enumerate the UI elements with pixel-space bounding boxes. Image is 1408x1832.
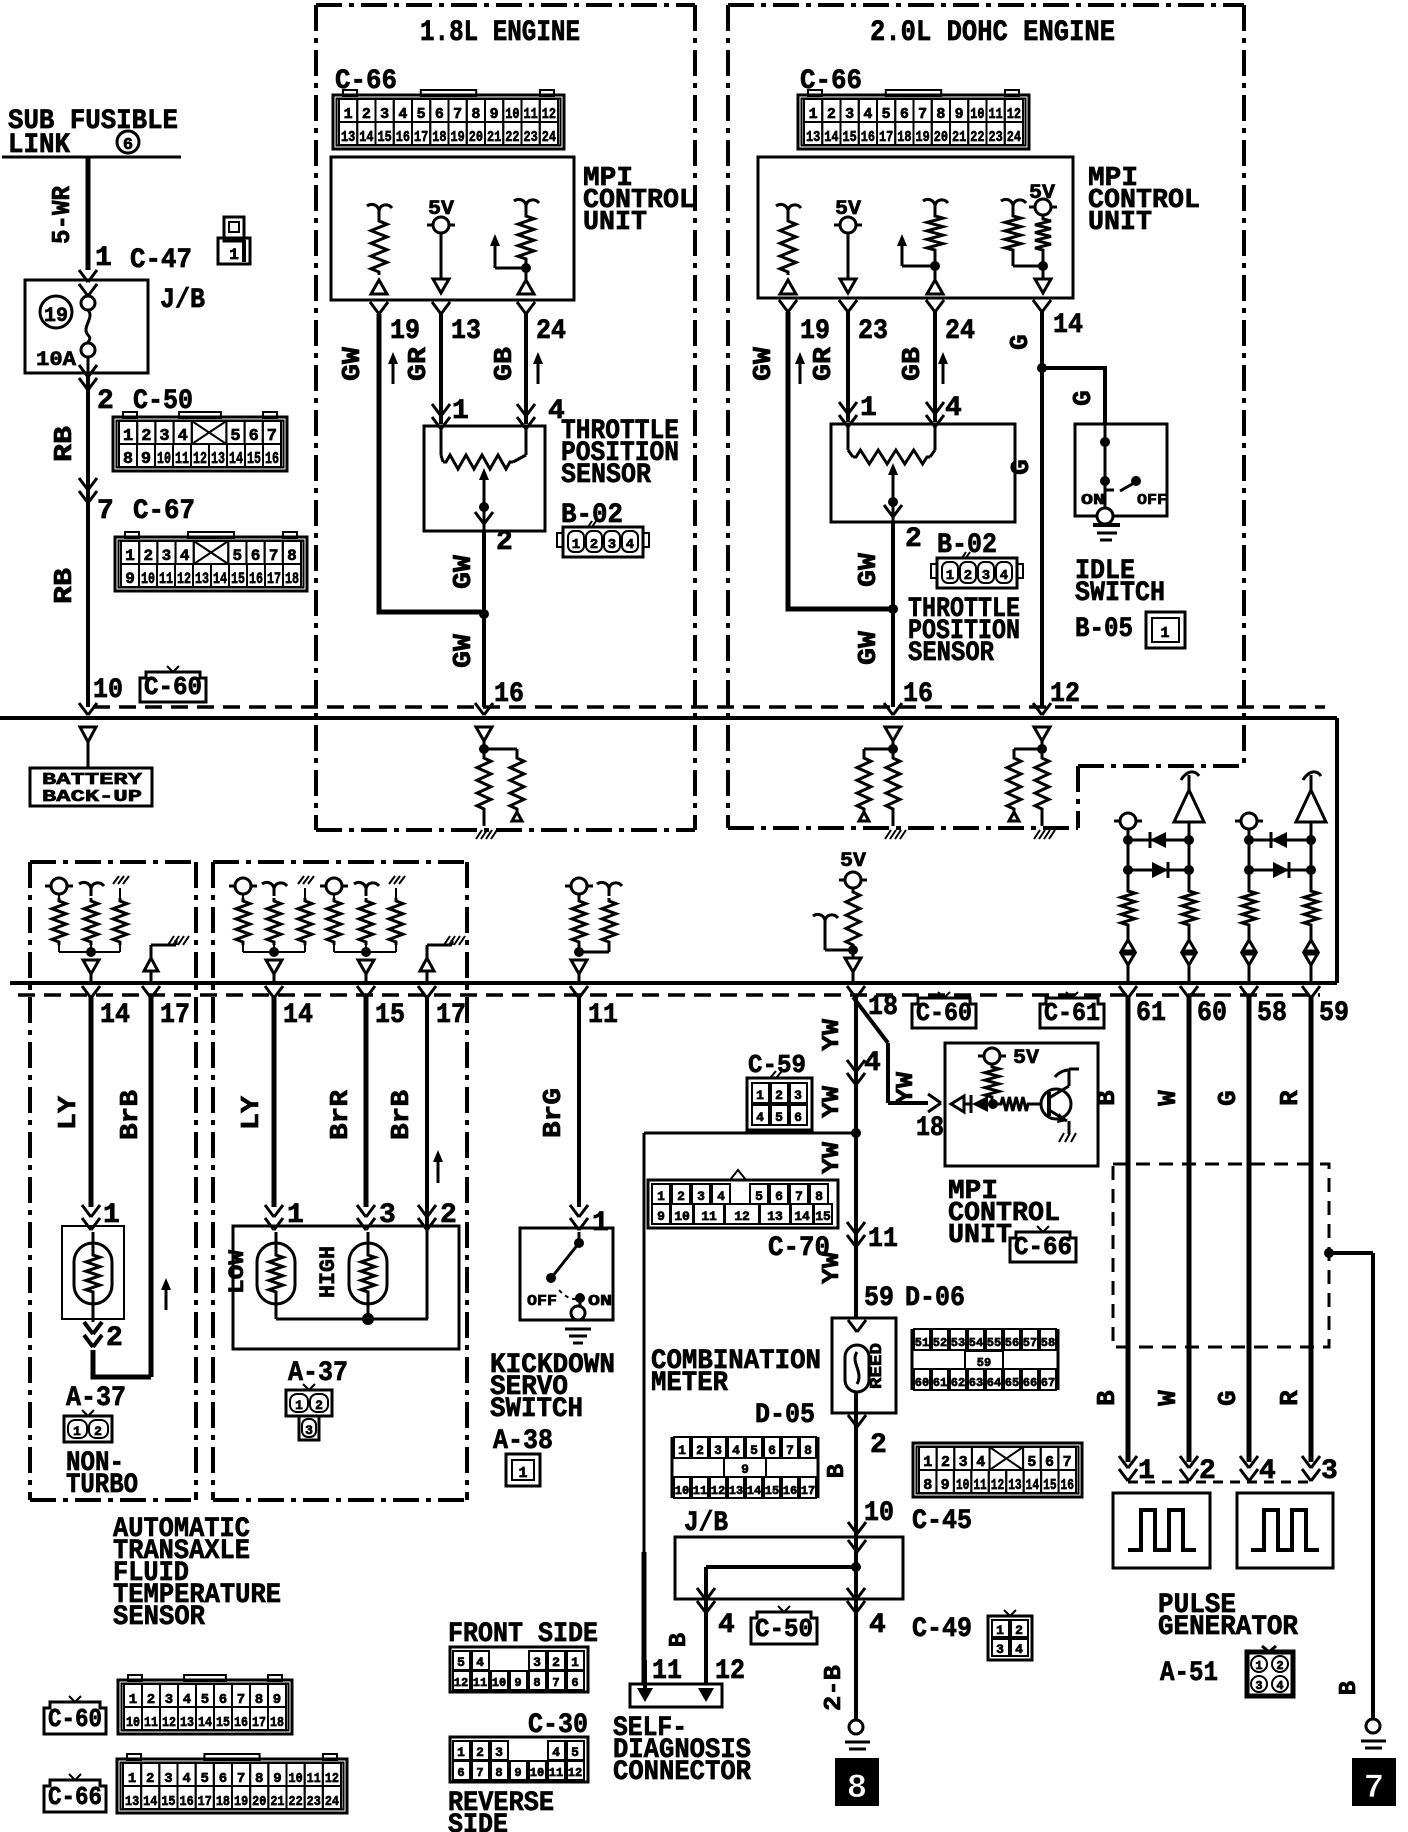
svg-text:10: 10 [674, 1209, 690, 1224]
svg-text:C-66: C-66 [335, 66, 397, 97]
svg-text:W: W [1153, 1090, 1183, 1106]
svg-text:10: 10 [141, 570, 155, 588]
svg-text:G: G [1213, 1390, 1243, 1406]
svg-text:3: 3 [1255, 1679, 1262, 1693]
svg-text:2: 2 [677, 1189, 685, 1204]
svg-text:2: 2 [146, 1771, 154, 1787]
svg-text:8: 8 [847, 1770, 867, 1808]
svg-text:GW: GW [448, 634, 478, 668]
svg-text:12: 12 [454, 1676, 468, 1690]
svg-text:2: 2 [775, 1088, 783, 1103]
svg-text:11: 11 [144, 1715, 158, 1731]
svg-text:6: 6 [457, 1766, 464, 1780]
svg-text:23: 23 [524, 129, 538, 146]
svg-text:17: 17 [436, 1000, 466, 1031]
svg-text:23: 23 [989, 129, 1003, 146]
svg-text:14: 14 [283, 1000, 313, 1031]
svg-text:7: 7 [237, 1771, 245, 1787]
svg-text:14: 14 [143, 1794, 157, 1810]
svg-text:22: 22 [289, 1794, 303, 1810]
svg-text:J/B: J/B [684, 1508, 728, 1539]
svg-text:BrB: BrB [115, 1090, 145, 1140]
svg-text:2: 2 [1276, 1659, 1283, 1673]
svg-text:14: 14 [100, 1000, 130, 1031]
svg-text:9: 9 [125, 570, 135, 588]
svg-text:20: 20 [252, 1794, 266, 1810]
svg-text:12: 12 [325, 1771, 339, 1787]
svg-text:5: 5 [571, 1745, 579, 1760]
svg-text:10: 10 [530, 1766, 544, 1780]
svg-text:23: 23 [858, 316, 888, 347]
svg-text:6: 6 [571, 1676, 578, 1690]
svg-text:ON: ON [588, 1293, 612, 1310]
svg-text:4: 4 [864, 1048, 881, 1079]
svg-text:8: 8 [936, 106, 945, 123]
svg-text:A-37: A-37 [66, 1383, 126, 1414]
svg-text:14: 14 [359, 129, 373, 146]
svg-text:SWITCH: SWITCH [490, 1394, 583, 1425]
svg-text:C-45: C-45 [912, 1506, 972, 1537]
svg-text:14: 14 [794, 1209, 810, 1224]
svg-text:4: 4 [182, 1771, 190, 1787]
svg-text:YW: YW [819, 1141, 846, 1174]
svg-text:11: 11 [588, 1000, 618, 1031]
svg-text:1: 1 [452, 396, 469, 427]
svg-text:9: 9 [741, 1462, 749, 1477]
svg-text:12: 12 [1007, 106, 1021, 123]
svg-text:4: 4 [180, 547, 190, 565]
svg-text:1: 1 [295, 1398, 303, 1413]
svg-text:8: 8 [495, 1766, 502, 1780]
svg-text:10: 10 [289, 1771, 303, 1787]
svg-text:15: 15 [161, 1794, 175, 1810]
svg-text:G: G [1005, 334, 1035, 350]
svg-text:B: B [824, 1464, 851, 1478]
svg-text:C-60: C-60 [48, 1704, 102, 1734]
svg-text:20: 20 [469, 129, 483, 146]
svg-text:5: 5 [233, 547, 243, 565]
svg-text:17: 17 [414, 129, 428, 146]
svg-text:C-66: C-66 [48, 1782, 102, 1812]
svg-text:24: 24 [542, 129, 556, 146]
svg-text:19: 19 [800, 316, 830, 347]
svg-text:16: 16 [396, 129, 410, 146]
svg-text:56: 56 [1005, 1336, 1019, 1350]
svg-text:C-70: C-70 [768, 1233, 830, 1264]
svg-text:9: 9 [273, 1771, 281, 1787]
svg-text:4: 4 [626, 537, 634, 553]
svg-text:UNIT: UNIT [583, 208, 647, 238]
svg-text:53: 53 [951, 1336, 965, 1350]
svg-text:5: 5 [457, 1655, 465, 1670]
svg-text:6: 6 [219, 1692, 227, 1708]
svg-text:2: 2 [106, 1323, 123, 1354]
svg-text:14: 14 [747, 1484, 761, 1498]
svg-text:W: W [1153, 1390, 1183, 1406]
svg-text:A-38: A-38 [493, 1426, 553, 1457]
svg-text:11: 11 [524, 106, 538, 123]
svg-text:13: 13 [211, 450, 225, 469]
svg-text:12: 12 [711, 1484, 725, 1498]
svg-text:60: 60 [1197, 998, 1227, 1029]
svg-text:10: 10 [956, 1477, 969, 1494]
svg-text:UNIT: UNIT [1088, 208, 1152, 238]
svg-text:OFF: OFF [527, 1293, 557, 1310]
svg-text:4: 4 [718, 1610, 735, 1641]
svg-text:B: B [1092, 1390, 1122, 1406]
svg-text:12: 12 [193, 450, 207, 469]
svg-text:SENSOR: SENSOR [113, 1602, 205, 1633]
svg-text:1: 1 [996, 1623, 1004, 1638]
svg-text:19: 19 [234, 1794, 248, 1810]
svg-text:18: 18 [216, 1794, 230, 1810]
svg-text:9: 9 [490, 106, 499, 123]
svg-text:ON: ON [1081, 492, 1105, 509]
svg-text:9: 9 [514, 1676, 521, 1690]
svg-text:TURBO: TURBO [66, 1470, 138, 1501]
svg-text:1: 1 [571, 1655, 579, 1670]
svg-text:13: 13 [180, 1715, 194, 1731]
svg-text:C-60: C-60 [916, 998, 972, 1028]
svg-text:13: 13 [125, 1794, 139, 1810]
svg-text:4: 4 [1015, 1642, 1023, 1657]
svg-text:B-05: B-05 [1075, 614, 1133, 645]
svg-text:11: 11 [159, 570, 173, 588]
svg-text:2: 2 [147, 1692, 155, 1708]
svg-text:19: 19 [44, 305, 68, 328]
svg-text:RB: RB [49, 568, 79, 604]
svg-text:8: 8 [255, 1771, 263, 1787]
svg-text:7: 7 [1063, 1454, 1072, 1471]
svg-text:3: 3 [165, 1692, 173, 1708]
svg-text:REED: REED [868, 1343, 887, 1389]
svg-text:5-WR: 5-WR [47, 186, 77, 244]
svg-text:YW: YW [819, 1085, 846, 1118]
svg-text:8: 8 [533, 1676, 540, 1690]
svg-text:SIDE: SIDE [448, 1810, 508, 1832]
svg-text:10A: 10A [36, 349, 76, 372]
svg-text:A-51: A-51 [1160, 1658, 1218, 1689]
svg-text:21: 21 [487, 129, 501, 146]
svg-text:4: 4 [1000, 568, 1008, 584]
svg-text:BrG: BrG [538, 1088, 568, 1138]
svg-text:19: 19 [916, 129, 930, 146]
svg-text:6: 6 [435, 106, 444, 123]
svg-text:22: 22 [505, 129, 519, 146]
svg-text:1: 1 [125, 547, 135, 565]
svg-text:15: 15 [375, 1000, 405, 1031]
svg-text:62: 62 [951, 1376, 965, 1390]
svg-text:1: 1 [678, 1443, 686, 1458]
svg-text:LY: LY [236, 1096, 266, 1130]
svg-text:6: 6 [900, 106, 909, 123]
svg-text:4: 4 [398, 106, 407, 123]
svg-text:1: 1 [923, 1454, 932, 1471]
svg-text:5: 5 [882, 106, 891, 123]
svg-text:8: 8 [923, 1477, 932, 1494]
svg-text:GW: GW [748, 347, 778, 381]
svg-text:13: 13 [729, 1484, 743, 1498]
svg-text:2: 2 [905, 524, 922, 555]
svg-text:SWITCH: SWITCH [1075, 578, 1165, 609]
svg-text:B: B [1336, 1681, 1363, 1695]
svg-text:9: 9 [514, 1766, 521, 1780]
svg-text:9: 9 [273, 1692, 281, 1708]
svg-text:1: 1 [73, 1424, 81, 1439]
svg-text:6: 6 [775, 1189, 783, 1204]
svg-text:FRONT SIDE: FRONT SIDE [448, 1619, 598, 1650]
svg-text:7: 7 [237, 1692, 245, 1708]
svg-text:14: 14 [213, 570, 227, 588]
svg-text:2: 2 [964, 568, 972, 584]
svg-text:17: 17 [879, 129, 893, 146]
svg-text:9: 9 [657, 1209, 665, 1224]
svg-text:5: 5 [1027, 1454, 1036, 1471]
svg-text:11: 11 [652, 1656, 682, 1687]
svg-text:G: G [1068, 390, 1098, 406]
svg-text:C-50: C-50 [755, 1614, 813, 1644]
svg-text:8: 8 [255, 1692, 263, 1708]
svg-text:4: 4 [552, 1745, 560, 1760]
svg-text:17: 17 [267, 570, 281, 588]
svg-text:3: 3 [982, 568, 990, 584]
svg-text:3: 3 [845, 106, 854, 123]
svg-text:15: 15 [247, 450, 261, 469]
svg-text:5: 5 [201, 1692, 209, 1708]
svg-text:2: 2 [870, 1430, 887, 1461]
svg-text:65: 65 [1005, 1376, 1019, 1390]
svg-text:7: 7 [786, 1443, 794, 1458]
svg-text:16: 16 [265, 450, 279, 469]
svg-text:9: 9 [941, 1477, 950, 1494]
svg-text:5V: 5V [840, 850, 866, 873]
svg-text:19: 19 [390, 316, 420, 347]
svg-text:18: 18 [897, 129, 911, 146]
svg-text:1.8L ENGINE: 1.8L ENGINE [420, 16, 580, 50]
svg-text:HIGH: HIGH [316, 1246, 341, 1298]
svg-text:SENSOR: SENSOR [908, 638, 994, 669]
svg-text:5: 5 [417, 106, 426, 123]
svg-text:16: 16 [783, 1484, 797, 1498]
svg-text:6: 6 [794, 1110, 802, 1125]
svg-text:51: 51 [915, 1336, 929, 1350]
svg-text:11: 11 [989, 106, 1003, 123]
svg-text:YW: YW [893, 1071, 920, 1104]
svg-text:14: 14 [198, 1715, 212, 1731]
svg-text:3: 3 [608, 537, 616, 553]
svg-text:16: 16 [180, 1794, 194, 1810]
svg-text:3: 3 [533, 1655, 541, 1670]
svg-text:3: 3 [697, 1189, 705, 1204]
svg-text:8: 8 [815, 1189, 823, 1204]
svg-text:3: 3 [164, 1771, 172, 1787]
svg-text:5: 5 [201, 1771, 209, 1787]
svg-text:4: 4 [863, 106, 872, 123]
svg-text:1: 1 [344, 106, 353, 123]
svg-text:7: 7 [795, 1189, 803, 1204]
svg-text:24: 24 [945, 316, 975, 347]
svg-text:5V: 5V [1013, 1047, 1039, 1070]
svg-text:6: 6 [251, 547, 261, 565]
svg-text:J/B: J/B [160, 285, 205, 316]
svg-text:3: 3 [305, 1423, 313, 1438]
svg-text:55: 55 [987, 1336, 1001, 1350]
svg-text:2-B: 2-B [821, 1665, 848, 1711]
svg-text:3: 3 [1321, 1456, 1338, 1487]
svg-text:BrR: BrR [325, 1090, 355, 1140]
svg-text:2: 2 [696, 1443, 704, 1458]
svg-text:3: 3 [794, 1088, 802, 1103]
svg-text:15: 15 [1043, 1477, 1056, 1494]
svg-text:19: 19 [451, 129, 465, 146]
svg-text:3: 3 [380, 106, 389, 123]
svg-text:24: 24 [1007, 129, 1021, 146]
svg-text:16: 16 [861, 129, 875, 146]
svg-text:OFF: OFF [1137, 492, 1167, 509]
svg-text:3: 3 [714, 1443, 722, 1458]
svg-text:CONNECTOR: CONNECTOR [613, 1757, 751, 1788]
svg-text:6: 6 [1045, 1454, 1054, 1471]
svg-text:C-60: C-60 [144, 672, 202, 702]
svg-text:G: G [1006, 459, 1036, 475]
svg-text:BACK-UP: BACK-UP [42, 788, 142, 807]
svg-text:1: 1 [657, 1189, 665, 1204]
svg-text:24: 24 [325, 1794, 339, 1810]
svg-text:15: 15 [378, 129, 392, 146]
svg-text:11: 11 [868, 1224, 898, 1255]
svg-text:1: 1 [1255, 1659, 1262, 1673]
svg-text:57: 57 [1023, 1336, 1037, 1350]
svg-text:9: 9 [955, 106, 964, 123]
svg-text:67: 67 [1041, 1376, 1055, 1390]
svg-text:17: 17 [160, 1000, 190, 1031]
svg-text:2: 2 [94, 1424, 102, 1439]
svg-text:2.0L DOHC ENGINE: 2.0L DOHC ENGINE [870, 16, 1115, 50]
svg-text:G: G [1213, 1090, 1243, 1106]
svg-text:18: 18 [285, 570, 299, 588]
svg-text:15: 15 [843, 129, 857, 146]
svg-text:13: 13 [341, 129, 355, 146]
svg-text:5: 5 [755, 1189, 763, 1204]
svg-text:1: 1 [518, 1465, 527, 1482]
svg-text:GB: GB [489, 347, 519, 381]
svg-text:GW: GW [853, 553, 883, 587]
svg-text:C-47: C-47 [130, 245, 192, 276]
svg-text:4: 4 [756, 1110, 764, 1125]
svg-text:B: B [666, 1633, 693, 1647]
svg-text:4: 4 [732, 1443, 740, 1458]
svg-text:24: 24 [536, 316, 566, 347]
svg-text:LOW: LOW [225, 1249, 250, 1294]
svg-text:8: 8 [287, 547, 297, 565]
svg-text:17: 17 [801, 1484, 815, 1498]
svg-text:12: 12 [568, 1766, 582, 1780]
svg-text:1: 1 [95, 243, 112, 274]
svg-text:14: 14 [1026, 1477, 1039, 1494]
svg-text:10: 10 [675, 1484, 689, 1498]
svg-text:12: 12 [734, 1209, 750, 1224]
svg-text:C-67: C-67 [133, 496, 195, 527]
svg-text:17: 17 [198, 1794, 212, 1810]
svg-text:61: 61 [933, 1376, 947, 1390]
svg-text:D-06: D-06 [905, 1283, 965, 1314]
svg-text:63: 63 [969, 1376, 983, 1390]
svg-text:7: 7 [97, 496, 114, 527]
svg-text:15: 15 [765, 1484, 779, 1498]
svg-text:13: 13 [767, 1209, 783, 1224]
svg-text:C-61: C-61 [1044, 998, 1100, 1028]
svg-text:16: 16 [234, 1715, 248, 1731]
svg-text:C-66: C-66 [1014, 1232, 1072, 1262]
svg-text:1: 1 [229, 246, 239, 264]
svg-text:6: 6 [123, 136, 133, 155]
svg-text:61: 61 [1136, 998, 1166, 1029]
svg-text:2: 2 [941, 1454, 950, 1471]
svg-text:3: 3 [162, 547, 172, 565]
svg-text:8: 8 [471, 106, 480, 123]
svg-text:2: 2 [496, 527, 513, 558]
svg-text:10: 10 [505, 106, 519, 123]
svg-text:16: 16 [903, 679, 933, 710]
svg-text:52: 52 [933, 1336, 947, 1350]
svg-text:UNIT: UNIT [948, 1221, 1012, 1251]
svg-text:20: 20 [934, 129, 948, 146]
svg-text:4: 4 [717, 1189, 725, 1204]
svg-text:11: 11 [549, 1766, 563, 1780]
svg-text:R: R [1275, 1090, 1305, 1106]
svg-text:11: 11 [307, 1771, 321, 1787]
svg-text:LY: LY [53, 1096, 83, 1130]
svg-text:11: 11 [175, 450, 189, 469]
svg-text:12: 12 [162, 1715, 176, 1731]
svg-text:14: 14 [824, 129, 838, 146]
svg-text:12: 12 [1050, 679, 1080, 710]
svg-text:5: 5 [750, 1443, 758, 1458]
svg-text:7: 7 [1364, 1770, 1384, 1808]
svg-text:1: 1 [1160, 625, 1169, 642]
svg-text:1: 1 [128, 1771, 136, 1787]
svg-text:GW: GW [448, 555, 478, 589]
svg-text:1: 1 [129, 1692, 137, 1708]
svg-text:2: 2 [143, 547, 153, 565]
svg-text:7: 7 [269, 547, 279, 565]
svg-text:12: 12 [715, 1656, 745, 1687]
svg-text:13: 13 [451, 316, 481, 347]
svg-text:10: 10 [864, 1498, 894, 1529]
svg-text:14: 14 [229, 450, 243, 469]
svg-text:10: 10 [157, 450, 171, 469]
svg-text:11: 11 [701, 1209, 717, 1224]
svg-text:18: 18 [432, 129, 446, 146]
svg-text:4: 4 [476, 1655, 484, 1670]
svg-text:7: 7 [476, 1766, 483, 1780]
svg-text:13: 13 [1008, 1477, 1021, 1494]
svg-text:B: B [1092, 1090, 1122, 1106]
svg-text:C-49: C-49 [912, 1614, 972, 1645]
svg-text:11: 11 [473, 1676, 487, 1690]
svg-text:12: 12 [542, 106, 556, 123]
svg-text:4: 4 [945, 393, 962, 424]
svg-text:12: 12 [177, 570, 191, 588]
svg-text:1: 1 [572, 537, 580, 553]
svg-text:2: 2 [552, 1655, 560, 1670]
svg-text:10: 10 [93, 675, 123, 706]
svg-text:1: 1 [860, 393, 877, 424]
svg-text:4: 4 [976, 1454, 985, 1471]
svg-text:7: 7 [552, 1676, 559, 1690]
svg-text:7: 7 [918, 106, 927, 123]
svg-text:10: 10 [970, 106, 984, 123]
